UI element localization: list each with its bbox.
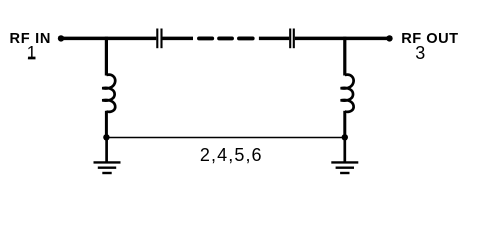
capacitor C2	[290, 29, 294, 49]
capacitor C1	[157, 29, 161, 49]
inductor L2	[341, 75, 354, 112]
wire right vertical upper	[343, 37, 346, 76]
label RF OUT	[401, 31, 458, 47]
wire bottom (node 2,4,5,6)	[106, 137, 344, 139]
wire dashed omitted-sections segment	[199, 36, 253, 40]
pin number 3	[415, 43, 425, 63]
node RF OUT terminal dot	[386, 35, 392, 41]
ground left	[94, 138, 121, 174]
node RF IN terminal dot	[58, 35, 64, 41]
svg-text:3: 3	[415, 43, 425, 63]
wire before C2	[259, 37, 289, 41]
wire left vertical lower	[105, 111, 108, 138]
wire left vertical upper	[105, 37, 108, 76]
junction dot right	[342, 134, 348, 140]
wire right vertical lower	[343, 111, 346, 138]
wire top left segment	[61, 37, 156, 41]
inductor L1	[102, 75, 115, 112]
wire top right segment	[295, 37, 390, 41]
wire after C1	[163, 37, 194, 41]
label RF IN	[9, 31, 51, 47]
label 2,4,5,6	[200, 145, 263, 165]
svg-text:2,4,5,6: 2,4,5,6	[200, 145, 263, 165]
ground right	[331, 138, 358, 174]
junction dot left	[103, 134, 109, 140]
pin number 1	[27, 42, 37, 62]
svg-text:RF OUT: RF OUT	[401, 31, 458, 47]
